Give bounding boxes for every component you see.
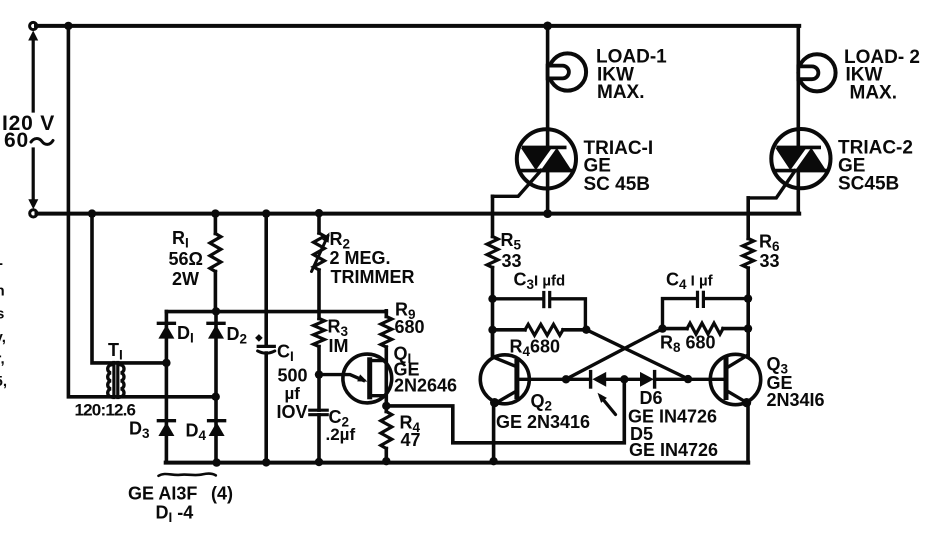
svg-text:y,: y, — [0, 329, 6, 346]
svg-text:C3I µfd: C3I µfd — [514, 270, 566, 293]
svg-text:IOV: IOV — [277, 402, 308, 422]
svg-text:s: s — [0, 306, 4, 323]
svg-text:-: - — [0, 255, 3, 272]
svg-text:500: 500 — [278, 366, 308, 386]
svg-text:2W: 2W — [172, 269, 199, 289]
svg-text:(4): (4) — [211, 484, 233, 504]
svg-text:33: 33 — [760, 251, 780, 271]
svg-text:60: 60 — [4, 129, 29, 152]
svg-text:r,: r, — [0, 351, 5, 368]
svg-text:2N2646: 2N2646 — [394, 376, 457, 396]
svg-text:n: n — [0, 283, 5, 300]
svg-text:SC45B: SC45B — [838, 174, 899, 195]
svg-text:56Ω: 56Ω — [169, 249, 203, 269]
svg-text:µf: µf — [285, 384, 301, 403]
svg-text:47: 47 — [401, 430, 421, 450]
svg-text:5,: 5, — [0, 373, 7, 390]
svg-text:.2µf: .2µf — [326, 425, 356, 444]
svg-text:DI -4: DI -4 — [156, 503, 194, 526]
svg-text:GE 2N3416: GE 2N3416 — [496, 412, 590, 432]
svg-text:GE AI3F: GE AI3F — [128, 484, 197, 504]
svg-text:120:12.6: 120:12.6 — [75, 401, 136, 420]
svg-text:R4680: R4680 — [510, 337, 561, 360]
svg-text:SC 45B: SC 45B — [584, 174, 651, 195]
svg-text:C4 I µf: C4 I µf — [666, 270, 714, 293]
svg-text:R8 680: R8 680 — [660, 333, 716, 356]
svg-text:MAX.: MAX. — [597, 82, 645, 103]
svg-text:2N34I6: 2N34I6 — [767, 390, 825, 410]
svg-text:GE IN4726: GE IN4726 — [629, 440, 718, 460]
svg-text:IM: IM — [329, 336, 349, 356]
svg-text:D6: D6 — [640, 388, 663, 408]
svg-text:2 MEG.: 2 MEG. — [330, 248, 391, 268]
svg-text:MAX.: MAX. — [850, 83, 898, 104]
svg-text:33: 33 — [502, 251, 522, 271]
svg-text:680: 680 — [395, 317, 425, 337]
svg-text:TRIMMER: TRIMMER — [331, 267, 415, 287]
